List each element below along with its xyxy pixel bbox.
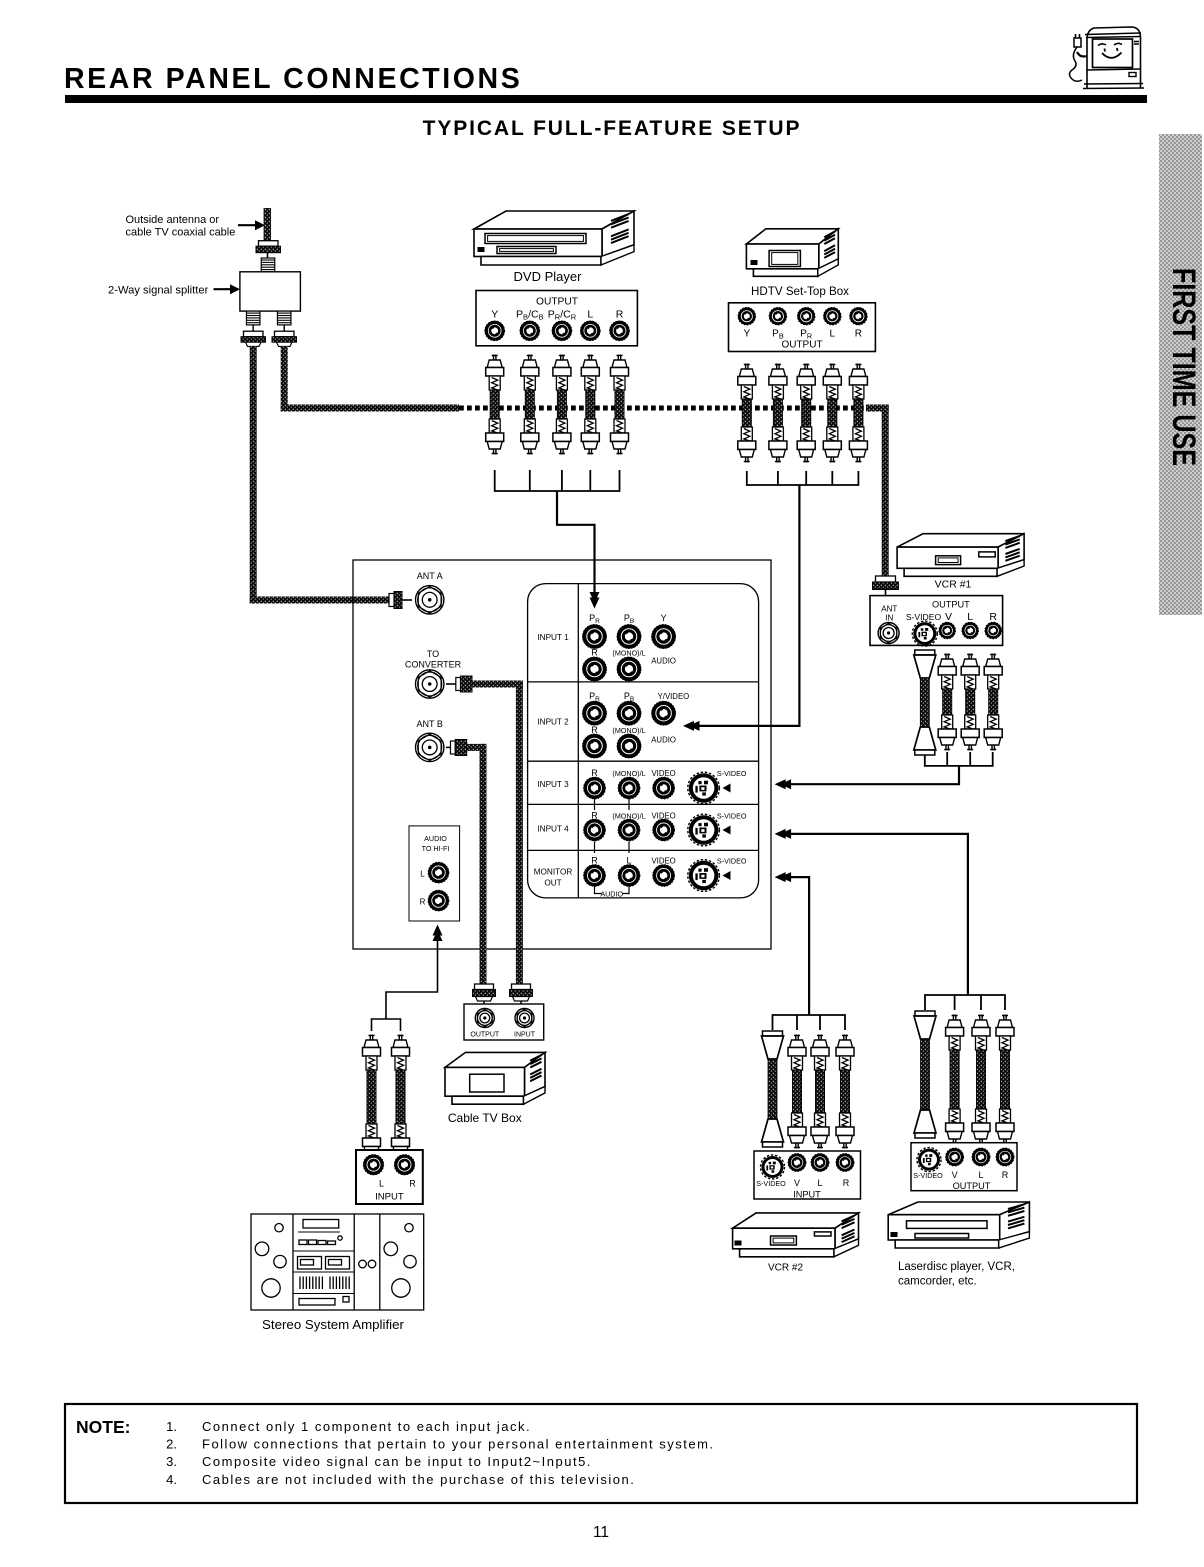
row divider INPUT2/INPUT3	[528, 760, 759, 762]
svg-text:INPUT 2: INPUT 2	[537, 718, 569, 727]
svg-text:S-VIDEO: S-VIDEO	[717, 857, 747, 866]
VCR1 R jack	[985, 622, 1001, 638]
svg-text:OUT: OUT	[544, 879, 561, 888]
AUDIO TO HI-FI jack L	[428, 862, 449, 883]
VCR2 S-VIDEO jack	[761, 1155, 785, 1179]
HDTV RCA cable 1	[738, 364, 756, 463]
INPUT2 jack Y/VIDEO	[652, 701, 676, 725]
svg-text:FIRST TIME USE: FIRST TIME USE	[1166, 268, 1202, 466]
svg-text:R: R	[591, 768, 598, 778]
INPUT2 jack PB	[617, 701, 641, 725]
DVD RCA cable 3	[553, 355, 571, 455]
HDTV jack PB	[769, 308, 786, 325]
svg-text:11: 11	[593, 1524, 609, 1541]
wire: Laserdisc group to TV INPUT 4	[786, 834, 968, 995]
svg-text:L: L	[379, 1179, 384, 1189]
wire: amplifier to AUDIO TO HI-FI	[386, 940, 438, 1019]
svg-text:R: R	[420, 898, 426, 907]
wire: HDTV bracket to TV INPUT 2	[694, 485, 799, 726]
VCR2 R cable	[836, 1035, 854, 1149]
svg-text:Follow connections that pertai: Follow connections that pertain to your …	[202, 1437, 715, 1452]
INPUT3 jack R	[584, 777, 606, 799]
wire: VCR1 cable bracket	[925, 752, 993, 766]
svg-text:R: R	[409, 1179, 416, 1189]
F plug into ANT A	[389, 594, 394, 607]
svg-text:VCR #2: VCR #2	[768, 1263, 803, 1274]
Cable TV Box device	[445, 1052, 545, 1104]
svg-text:VIDEO: VIDEO	[651, 857, 675, 866]
svg-text:L: L	[978, 1170, 983, 1180]
svg-text:TYPICAL FULL-FEATURE SETUP: TYPICAL FULL-FEATURE SETUP	[423, 117, 802, 140]
svg-text:AUDIO: AUDIO	[651, 657, 676, 666]
HDTV jack PR	[798, 308, 815, 325]
Laserdisc R cable	[996, 1015, 1014, 1145]
VCR1 S-video cable	[914, 650, 936, 755]
HDTV jack L	[824, 308, 841, 325]
svg-text:TO: TO	[427, 649, 439, 659]
svg-text:OUTPUT: OUTPUT	[470, 1032, 500, 1039]
wire: HDTV cable bracket	[747, 471, 859, 485]
amplifier audio cable R	[392, 1035, 410, 1160]
VCR1 V jack	[939, 622, 955, 638]
coax cable splitter to ANT A	[250, 346, 257, 603]
amplifier jack L	[363, 1155, 383, 1175]
svg-text:VCR #1: VCR #1	[935, 579, 972, 591]
Laserdisc V cable	[946, 1015, 964, 1145]
INPUT2 jack MONO L	[617, 734, 641, 758]
F plug into converter INPUT	[510, 984, 533, 1001]
INPUT3 S-VIDEO jack	[688, 772, 720, 804]
INPUT1 jack R	[583, 657, 607, 681]
VCR1 L jack	[962, 622, 978, 638]
AUDIO TO HI-FI box	[409, 826, 460, 921]
wire: amplifier cable bracket	[372, 1019, 401, 1031]
svg-text:INPUT: INPUT	[375, 1192, 404, 1203]
amplifier jack R	[394, 1155, 414, 1175]
VCR1 ANT IN jack	[878, 623, 899, 644]
svg-text:L: L	[817, 1178, 822, 1188]
wire: VCR1 bracket to TV INPUT 3	[786, 766, 959, 784]
INPUT4 jack VIDEO	[653, 819, 675, 841]
splitter output barrel right	[277, 311, 291, 325]
HDTV RCA cable 4	[823, 364, 841, 463]
converter INPUT jack	[515, 1009, 534, 1028]
DVD jack PR/CR	[552, 321, 572, 341]
2-way signal splitter	[240, 272, 301, 311]
svg-text:AUDIO: AUDIO	[424, 834, 447, 843]
MONITOR OUT audio bracket	[595, 886, 602, 894]
svg-text:S-VIDEO: S-VIDEO	[717, 812, 747, 821]
svg-text:TO HI-FI: TO HI-FI	[422, 844, 450, 853]
HDTV OUTPUT jack panel	[729, 303, 876, 352]
INPUT2 jack R	[583, 734, 607, 758]
svg-text:Composite video signal can be: Composite video signal can be input to I…	[202, 1454, 592, 1469]
Laserdisc V jack	[946, 1148, 964, 1166]
HDTV set-top box device	[746, 229, 838, 276]
row divider INPUT3/INPUT4	[528, 803, 759, 805]
svg-text:R: R	[1002, 1170, 1009, 1180]
row divider INPUT4/MONITOR OUT	[528, 849, 759, 851]
splitter output barrel left	[246, 311, 260, 325]
INPUT1 jack PR	[583, 625, 607, 649]
Laserdisc OUTPUT jack panel	[911, 1143, 1017, 1191]
svg-text:NOTE:: NOTE:	[76, 1417, 130, 1437]
wire: DVD bracket to TV INPUT 1	[557, 491, 595, 598]
VCR1 L cable	[961, 654, 979, 751]
converter jack box	[464, 1004, 544, 1040]
INPUT4 S-VIDEO jack	[688, 814, 720, 846]
svg-text:OUTPUT: OUTPUT	[953, 1181, 991, 1191]
svg-text:R: R	[989, 611, 997, 623]
svg-text:R: R	[616, 309, 624, 321]
DVD jack L	[581, 321, 601, 341]
Stereo System Amplifier device	[251, 1214, 424, 1310]
MONITOR OUT S-video pointer	[723, 871, 731, 880]
TV jack panel rounded box	[528, 584, 759, 898]
svg-text:V: V	[794, 1178, 800, 1188]
svg-text:S-VIDEO: S-VIDEO	[717, 769, 747, 778]
INPUT1 jack PB	[617, 625, 641, 649]
svg-text:L: L	[967, 611, 973, 623]
VCR2 V cable	[788, 1035, 806, 1149]
title underline rule	[65, 95, 1147, 103]
svg-text:IN: IN	[885, 614, 893, 623]
wire: TV MONITOR OUT to VCR2 group	[786, 877, 809, 1015]
Laserdisc S-video cable	[914, 1011, 936, 1138]
DVD jack Y	[485, 321, 505, 341]
MONITOR OUT jack VIDEO	[653, 865, 675, 887]
HDTV RCA cable 5	[849, 364, 867, 463]
HDTV jack R	[850, 308, 867, 325]
svg-text:CONVERTER: CONVERTER	[405, 660, 462, 670]
svg-text:Laserdisc player, VCR,: Laserdisc player, VCR,	[898, 1261, 1015, 1273]
svg-text:S-VIDEO: S-VIDEO	[906, 612, 942, 622]
svg-text:L: L	[587, 309, 593, 321]
jack panel label column divider	[577, 584, 579, 898]
svg-text:VIDEO: VIDEO	[651, 769, 675, 778]
svg-text:AUDIO: AUDIO	[651, 736, 676, 745]
svg-text:Y: Y	[743, 329, 750, 340]
Laserdisc player device	[888, 1202, 1029, 1248]
svg-text:ANT: ANT	[881, 605, 897, 614]
svg-text:Y/VIDEO: Y/VIDEO	[658, 692, 690, 701]
svg-text:(MONO)/L: (MONO)/L	[612, 769, 645, 778]
DVD jack PB/CB	[520, 321, 540, 341]
Laserdisc R jack	[996, 1148, 1014, 1166]
svg-text:R: R	[855, 329, 862, 340]
VCR1 V cable	[938, 654, 956, 751]
F plug into VCR1 ANT IN	[876, 576, 896, 582]
arrow to antenna cable	[238, 224, 256, 226]
svg-text:DVD Player: DVD Player	[514, 269, 583, 284]
svg-text:INPUT 3: INPUT 3	[537, 780, 569, 789]
VCR #2 device	[733, 1213, 859, 1257]
arrow up into AUDIO TO HI-FI	[433, 925, 443, 942]
INPUT3 jack MONO L	[618, 777, 640, 799]
antenna coaxial cable	[264, 208, 272, 241]
INPUT3 S-video pointer	[723, 784, 731, 793]
DVD RCA cable 2	[521, 355, 539, 455]
svg-text:INPUT 1: INPUT 1	[537, 633, 569, 642]
TO CONVERTER jack	[416, 670, 444, 698]
svg-text:V: V	[952, 1170, 958, 1180]
cartoon TV mascot icon	[1070, 27, 1145, 89]
TV rear panel outer box	[353, 560, 771, 949]
cable TO CONVERTER to converter box INPUT	[472, 681, 523, 688]
svg-text:OUTPUT: OUTPUT	[536, 297, 578, 308]
svg-text:R: R	[843, 1178, 850, 1188]
AUDIO TO HI-FI jack R	[428, 890, 449, 911]
svg-text:ANT B: ANT B	[417, 719, 443, 729]
svg-text:INPUT 4: INPUT 4	[537, 825, 569, 834]
VCR2 R jack	[836, 1154, 854, 1172]
NOTE box	[65, 1404, 1137, 1503]
sidebar tab FIRST TIME USE	[1159, 134, 1202, 615]
coax cable to VCR1 - solid right run and drop	[866, 405, 889, 412]
VCR2 L jack	[811, 1154, 829, 1172]
svg-text:(MONO)/L: (MONO)/L	[612, 649, 645, 658]
ANT B jack	[416, 733, 444, 761]
HDTV RCA cable 2	[769, 364, 787, 463]
svg-text:HDTV Set-Top Box: HDTV Set-Top Box	[751, 285, 849, 298]
INPUT4 S-video pointer	[723, 826, 731, 835]
svg-text:Cable TV Box: Cable TV Box	[448, 1111, 522, 1125]
coax cable splitter to VCR1 - vertical drop	[281, 346, 288, 411]
svg-text:MONITOR: MONITOR	[534, 868, 573, 877]
VCR1 S-VIDEO jack	[912, 621, 937, 646]
DVD RCA cable 4	[581, 355, 599, 455]
INPUT1 jack Y	[652, 625, 676, 649]
amplifier audio cable L	[363, 1035, 381, 1160]
svg-text:L: L	[626, 856, 631, 866]
svg-text:Y: Y	[491, 309, 498, 321]
svg-text:2.: 2.	[166, 1437, 177, 1452]
arrow to splitter	[214, 288, 232, 290]
INPUT2 jack PR	[583, 701, 607, 725]
VCR2 S-video cable	[762, 1031, 784, 1147]
svg-text:Connect only 1 component to ea: Connect only 1 component to each input j…	[202, 1419, 531, 1434]
Laserdisc L jack	[972, 1148, 990, 1166]
INPUT1 jack MONO L	[617, 657, 641, 681]
column tick marks between rows	[594, 799, 596, 810]
svg-text:camcorder, etc.: camcorder, etc.	[898, 1276, 977, 1288]
VCR2 L cable	[811, 1035, 829, 1149]
F-connector on left splitter output	[244, 331, 264, 337]
svg-text:4.: 4.	[166, 1472, 177, 1487]
svg-text:INPUT: INPUT	[793, 1190, 821, 1200]
svg-text:REAR PANEL CONNECTIONS: REAR PANEL CONNECTIONS	[64, 63, 522, 95]
svg-text:cable TV coaxial cable: cable TV coaxial cable	[126, 227, 236, 239]
DVD player device	[474, 211, 634, 265]
svg-text:R: R	[591, 648, 598, 658]
VCR #1 device	[897, 534, 1024, 577]
DVD jack R	[610, 321, 630, 341]
svg-text:AUDIO: AUDIO	[600, 890, 623, 899]
VCR2 V jack	[788, 1154, 806, 1172]
wire: DVD cable bracket	[495, 470, 620, 491]
svg-text:Stereo System Amplifier: Stereo System Amplifier	[262, 1317, 404, 1332]
MONITOR OUT jack L	[618, 865, 640, 887]
svg-text:OUTPUT: OUTPUT	[932, 600, 970, 610]
svg-text:R: R	[591, 725, 598, 735]
Laserdisc S-VIDEO jack	[917, 1148, 941, 1172]
coax cable behind AV cables - dashed run	[459, 406, 866, 411]
svg-text:L: L	[420, 870, 425, 879]
svg-text:3.: 3.	[166, 1454, 177, 1469]
plug on ANT B	[451, 741, 456, 754]
INPUT3 jack VIDEO	[653, 777, 675, 799]
MONITOR OUT jack R	[584, 865, 606, 887]
F plug into converter OUTPUT	[473, 984, 496, 1001]
HDTV jack Y	[738, 308, 755, 325]
VCR2 INPUT jack panel	[754, 1151, 861, 1199]
INPUT4 jack R	[584, 819, 606, 841]
VCR1 OUTPUT jack panel	[870, 596, 1003, 646]
svg-text:V: V	[945, 611, 952, 623]
amplifier INPUT box	[356, 1150, 423, 1204]
Laserdisc L cable	[972, 1015, 990, 1145]
wire: VCR2 cable bracket	[773, 1015, 846, 1030]
DVD RCA cable 1	[486, 355, 504, 455]
ANT A jack	[416, 586, 444, 614]
MONITOR OUT S-VIDEO jack	[688, 860, 720, 892]
splitter input threaded barrel	[261, 258, 275, 272]
svg-text:1.: 1.	[166, 1419, 177, 1434]
converter OUTPUT jack	[475, 1009, 494, 1028]
svg-text:2-Way signal splitter: 2-Way signal splitter	[108, 285, 209, 297]
DVD OUTPUT jack panel	[476, 291, 637, 346]
plug on TO CONVERTER	[456, 678, 461, 691]
VCR1 R cable	[984, 654, 1002, 751]
svg-text:S-VIDEO: S-VIDEO	[756, 1179, 786, 1188]
DVD RCA cable 5	[611, 355, 629, 455]
svg-text:Outside antenna or: Outside antenna or	[126, 214, 220, 226]
svg-text:INPUT: INPUT	[514, 1032, 536, 1039]
svg-text:OUTPUT: OUTPUT	[781, 340, 822, 351]
F-connector on right splitter output	[275, 331, 295, 337]
svg-text:(MONO)/L: (MONO)/L	[612, 726, 645, 735]
INPUT4 jack MONO L	[618, 819, 640, 841]
coax cable splitter to VCR1 - solid left run	[281, 405, 459, 412]
svg-text:R: R	[591, 856, 598, 866]
row divider INPUT1/INPUT2	[528, 681, 759, 683]
svg-text:ANT A: ANT A	[417, 571, 443, 581]
svg-text:Y: Y	[661, 613, 667, 623]
antenna cable F-connector	[259, 241, 279, 247]
svg-text:L: L	[830, 329, 836, 340]
svg-text:Cables are not included with t: Cables are not included with the purchas…	[202, 1472, 635, 1487]
svg-text:S-VIDEO: S-VIDEO	[913, 1171, 943, 1180]
wire: Laserdisc cable bracket	[925, 995, 1005, 1010]
cable ANT B to converter box OUTPUT	[467, 744, 487, 751]
HDTV RCA cable 3	[797, 364, 815, 463]
